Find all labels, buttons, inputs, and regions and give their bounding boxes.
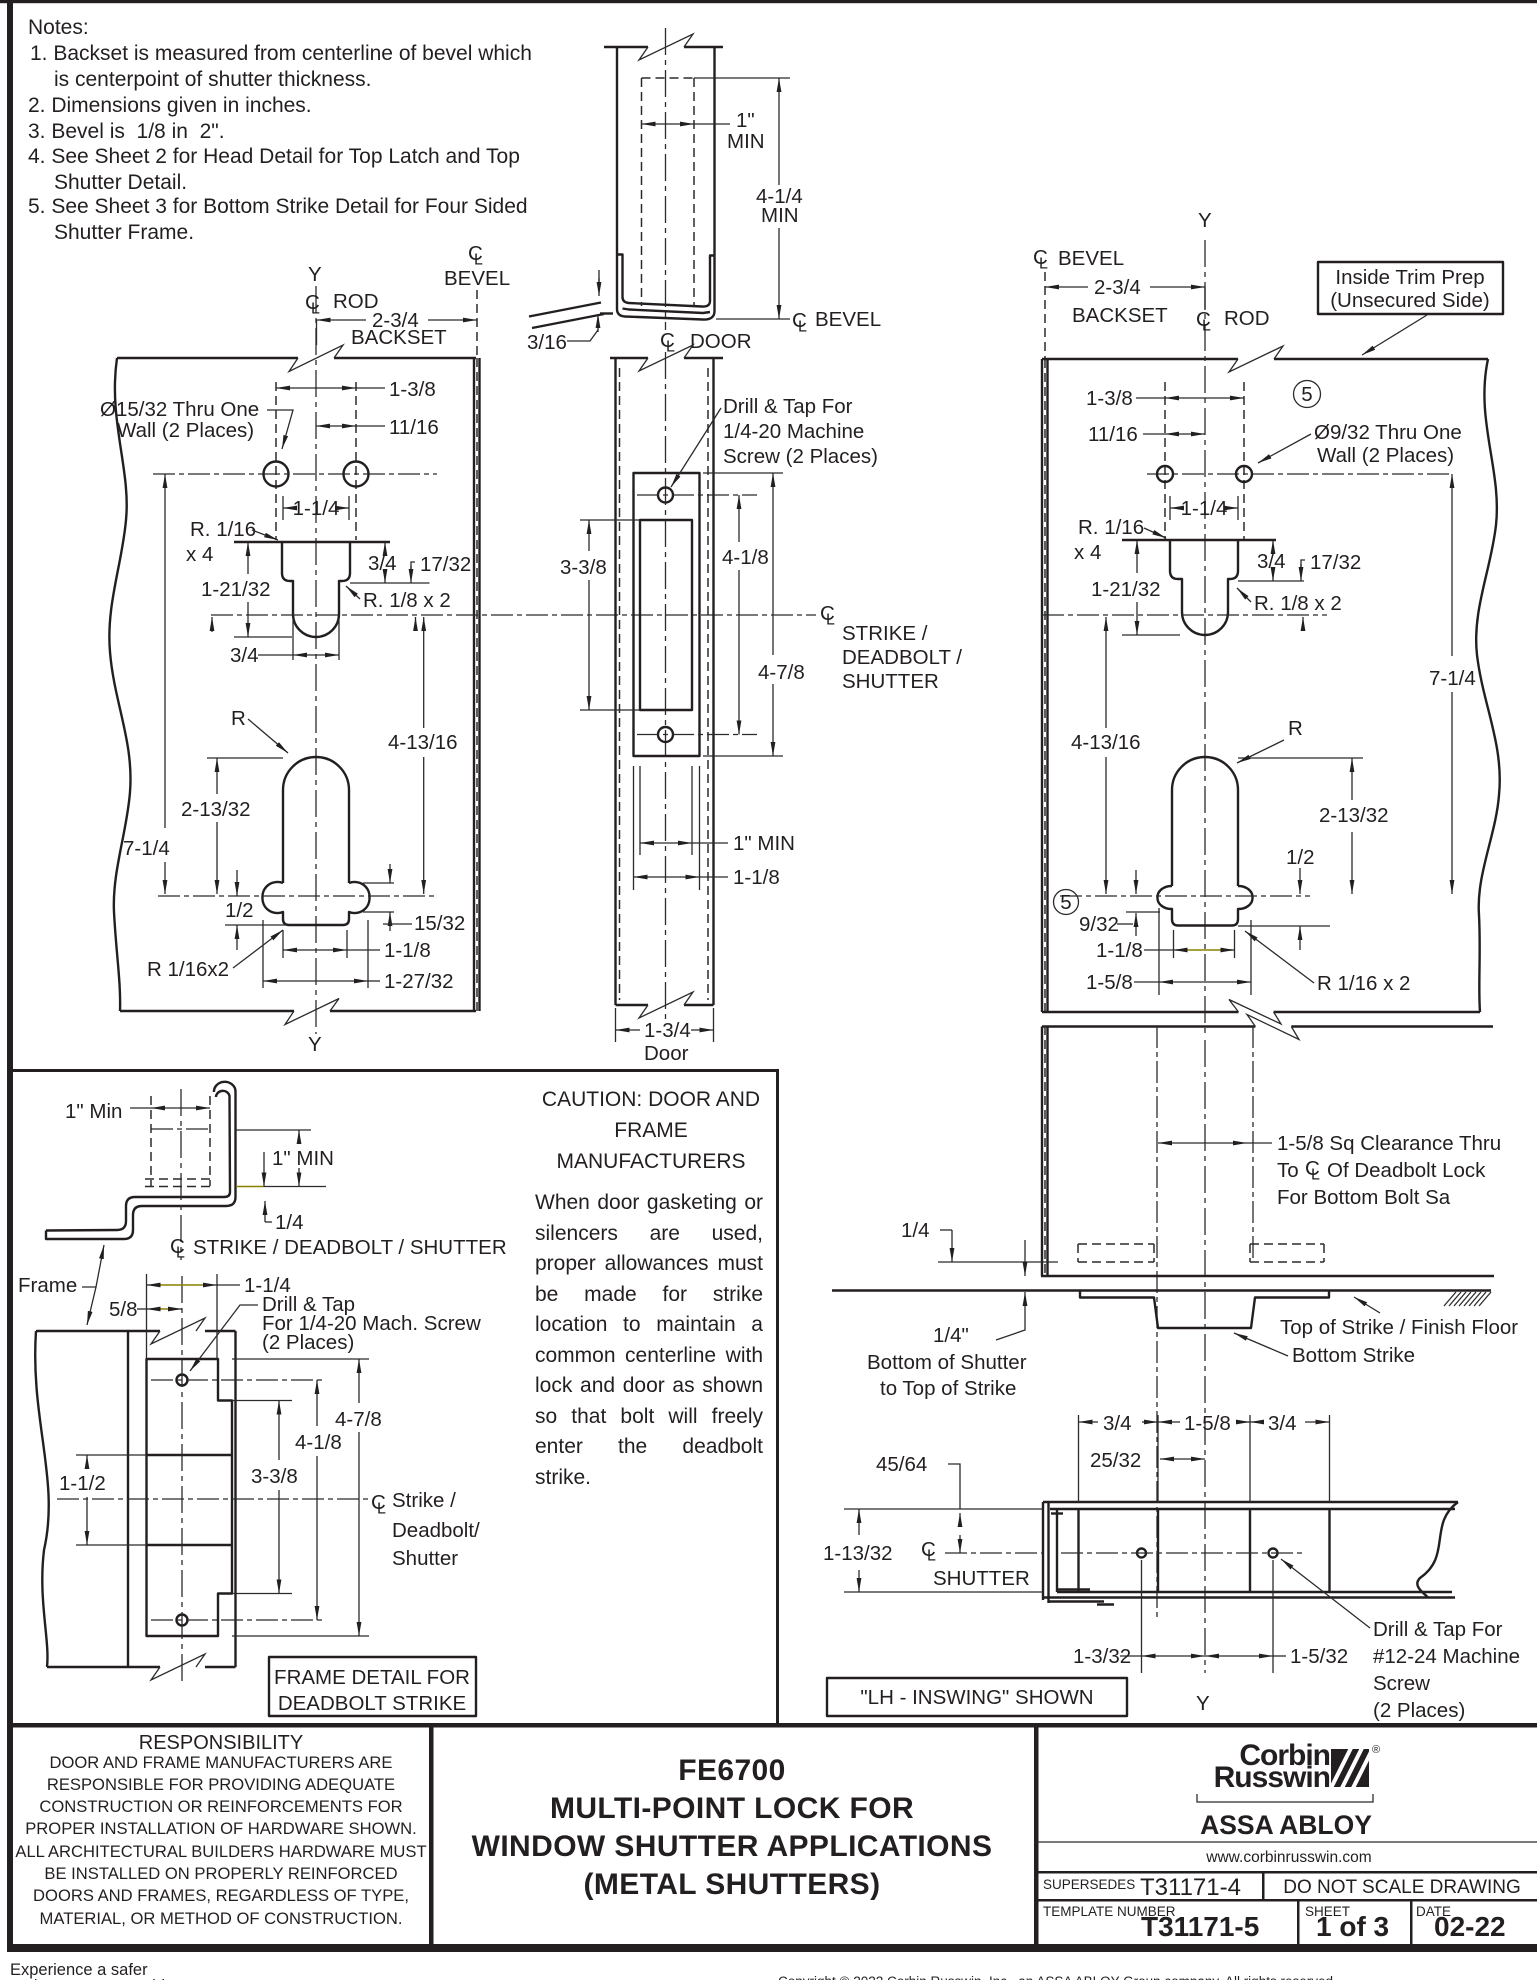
- dim 1-5/8 right: [1158, 908, 1160, 995]
- hole left: [264, 462, 289, 487]
- screw holes rail: [1137, 1549, 1146, 1558]
- right plate left edge double line: [1041, 359, 1043, 1012]
- svg-text:Wall (2 Places): Wall (2 Places): [117, 419, 254, 442]
- dim 1-27/32: [262, 920, 264, 988]
- channel inner walls: [617, 255, 716, 307]
- rail bottom edges: [1057, 1591, 1452, 1593]
- hole centerline horizontal: [153, 473, 437, 475]
- top of strike / finish floor line: [832, 1289, 1491, 1291]
- svg-text:Shutter Detail.: Shutter Detail.: [54, 171, 187, 194]
- dim 3/16: [598, 270, 600, 282]
- door bevel hidden lines: [619, 368, 621, 1000]
- svg-text:3. Bevel is 1/8 in 2".: 3. Bevel is 1/8 in 2".: [28, 120, 225, 143]
- svg-text:1-1/8: 1-1/8: [1096, 939, 1143, 962]
- dim 1/2: [236, 870, 238, 896]
- rail screw centerline: [1061, 1552, 1302, 1554]
- Inside Trim Prep box: [1318, 262, 1503, 314]
- rail left end channel: [1042, 1502, 1044, 1600]
- svg-text:3/4: 3/4: [1268, 1412, 1297, 1435]
- svg-text:SUPERSEDES: SUPERSEDES: [1043, 1877, 1135, 1892]
- svg-text:#12-24 Machine: #12-24 Machine: [1373, 1645, 1520, 1668]
- dim 15/32: [363, 882, 394, 884]
- label CL STRIKE DEADBOLT SHUTTER lower left: [170, 1235, 507, 1262]
- leader from box to plate top: [1362, 315, 1427, 355]
- svg-text:11/16: 11/16: [1088, 423, 1138, 446]
- svg-text:3/4: 3/4: [230, 644, 259, 667]
- svg-text:L: L: [1311, 1167, 1320, 1184]
- extension bottom right y925: [1238, 925, 1330, 927]
- label CL BEVEL right: [1033, 246, 1124, 273]
- svg-text:1-3/32: 1-3/32: [1073, 1645, 1131, 1668]
- svg-text:1-3/4: 1-3/4: [644, 1019, 691, 1042]
- Y / CL ROD centerline: [315, 286, 317, 1034]
- svg-text:MIN: MIN: [761, 204, 799, 227]
- dim 1-3/4 door: [615, 1008, 617, 1042]
- svg-text:CAUTION: DOOR AND: CAUTION: DOOR AND: [542, 1088, 760, 1111]
- screw hole bottom: [658, 727, 673, 742]
- svg-text:Drill & Tap For: Drill & Tap For: [723, 395, 853, 418]
- svg-text:L: L: [311, 301, 320, 318]
- dim 1-5/8 sq clearance: [1158, 1142, 1247, 1144]
- svg-text:ROD: ROD: [1224, 307, 1270, 330]
- bottom strike plate: [1080, 1291, 1329, 1329]
- dim 4-1/8 frame: [316, 1380, 318, 1426]
- svg-text:Door: Door: [644, 1042, 689, 1065]
- extension y583 right side: [1238, 580, 1304, 582]
- dim 1-3/8 right: [1136, 397, 1165, 399]
- extension line y583 right: [350, 582, 430, 584]
- door edge walls: [614, 358, 616, 1005]
- dim 1/4 lower: [1024, 1292, 1026, 1311]
- svg-text:DOOR: DOOR: [690, 330, 752, 353]
- svg-text:1" MIN: 1" MIN: [272, 1147, 334, 1170]
- channel outer walls: [617, 47, 715, 320]
- svg-text:(METAL SHUTTERS): (METAL SHUTTERS): [584, 1868, 881, 1901]
- center line frame detail: [181, 1276, 183, 1686]
- dim 1-1/8 lower: [633, 766, 635, 890]
- dim 2-3/4 BACKSET right: [1045, 286, 1088, 288]
- dim 4-13/16 right: [1105, 617, 1107, 728]
- svg-text:4-13/16: 4-13/16: [388, 731, 458, 754]
- svg-text:Ø15/32 Thru One: Ø15/32 Thru One: [100, 398, 259, 421]
- door centerline upper: [665, 28, 667, 330]
- label CL ROD right: [1196, 307, 1270, 335]
- dim 1/2 right: [1299, 868, 1301, 894]
- dome extension right: [1238, 757, 1363, 759]
- dim 1-1/2: [86, 1455, 88, 1467]
- extension y637 right drawing: [1122, 634, 1180, 636]
- Y / CL ROD centerline right: [1204, 240, 1206, 1034]
- strike centerline horizontal common: [211, 614, 816, 616]
- svg-text:PROPER INSTALLATION OF HARDWAR: PROPER INSTALLATION OF HARDWARE SHOWN.: [25, 1819, 417, 1838]
- svg-text:Russwin: Russwin: [1214, 1761, 1330, 1794]
- CL strike line frame detail: [57, 1498, 371, 1500]
- svg-text:4-13/16: 4-13/16: [1071, 731, 1141, 754]
- left plate bottom edge: [120, 1010, 476, 1012]
- cutout centerlines right: [1164, 382, 1166, 540]
- svg-text:ALL ARCHITECTURAL BUILDERS HAR: ALL ARCHITECTURAL BUILDERS HARDWARE MUST: [15, 1842, 426, 1861]
- svg-text:2-3/4: 2-3/4: [1094, 276, 1141, 299]
- svg-text:RESPONSIBILITY: RESPONSIBILITY: [139, 1732, 304, 1754]
- dim 1-5/8 center: [1158, 1421, 1180, 1423]
- svg-text:BACKSET: BACKSET: [1072, 304, 1168, 327]
- svg-text:17/32: 17/32: [1310, 551, 1361, 574]
- dim 3/4 vertical: [384, 542, 386, 551]
- svg-text:Ø9/32 Thru One: Ø9/32 Thru One: [1314, 421, 1462, 444]
- dim 3-3/8: [580, 519, 640, 521]
- svg-text:R: R: [1288, 717, 1303, 740]
- svg-text:Wall (2 Places): Wall (2 Places): [1317, 444, 1454, 467]
- dim 7-1/4: [164, 474, 166, 828]
- svg-text:Notes:: Notes:: [28, 16, 89, 39]
- dim 11/16: [316, 425, 356, 427]
- svg-text:3/16: 3/16: [527, 331, 567, 354]
- svg-text:2-13/32: 2-13/32: [181, 798, 251, 821]
- svg-text:BACKSET: BACKSET: [351, 326, 447, 349]
- svg-text:R. 1/8 x 2: R. 1/8 x 2: [363, 589, 451, 612]
- dim 3/4 left: [1079, 1421, 1099, 1423]
- left plate right edge (bent flange, double line): [473, 358, 475, 1011]
- break symbol top: [289, 345, 343, 372]
- label CL strike frame detail: [371, 1489, 480, 1570]
- svg-text:To: To: [1277, 1159, 1299, 1182]
- strike plate face: [634, 473, 700, 756]
- dim 1-3/32: [1141, 1560, 1143, 1673]
- dim 4-1/8: [738, 495, 740, 542]
- svg-text:Drill & Tap For: Drill & Tap For: [1373, 1618, 1503, 1641]
- leader to right hole: [1258, 434, 1311, 463]
- small tick bottom left: [600, 312, 613, 314]
- svg-text:Bottom Strike: Bottom Strike: [1292, 1344, 1415, 1367]
- svg-text:1-5/8: 1-5/8: [1184, 1412, 1231, 1435]
- svg-text:1-1/2: 1-1/2: [59, 1472, 106, 1495]
- svg-text:is centerpoint of shutter thic: is centerpoint of shutter thickness.: [54, 68, 372, 91]
- svg-text:1-13/32: 1-13/32: [823, 1542, 893, 1565]
- dim 1-1/8: [282, 930, 284, 958]
- CL BEVEL dashed right: [1044, 272, 1046, 359]
- door top edge with break: [610, 357, 723, 359]
- svg-text:1/4: 1/4: [275, 1211, 304, 1234]
- upper cutout outline right: [1122, 540, 1276, 635]
- leader to left hole: [267, 410, 293, 449]
- svg-text:1-5/8: 1-5/8: [1086, 971, 1133, 994]
- dim 4-13/16: [423, 617, 425, 728]
- bevel slant lines: [529, 303, 604, 329]
- shutter lower section top line with double break: [1042, 1025, 1493, 1027]
- svg-text:"LH - INSWING" SHOWN: "LH - INSWING" SHOWN: [860, 1686, 1093, 1709]
- dim 1 inch MIN lower: [639, 766, 641, 855]
- hidden shutter channel in Z: [151, 1096, 210, 1186]
- svg-text:SHUTTER: SHUTTER: [842, 670, 939, 693]
- svg-text:WINDOW SHUTTER APPLICATIONS: WINDOW SHUTTER APPLICATIONS: [472, 1830, 993, 1863]
- notes: [28, 16, 532, 244]
- guide bottom extension: [938, 1261, 1058, 1263]
- svg-text:Strike /: Strike /: [392, 1489, 456, 1512]
- dim 4-7/8: [703, 472, 783, 474]
- dim 1" MIN top: [642, 123, 695, 125]
- svg-text:R: R: [231, 707, 246, 730]
- svg-text:Deadbolt/: Deadbolt/: [392, 1519, 480, 1542]
- svg-text:1-3/8: 1-3/8: [1086, 387, 1133, 410]
- svg-text:5: 5: [1301, 383, 1312, 406]
- svg-text:BE INSTALLED ON PROPERLY REINF: BE INSTALLED ON PROPERLY REINFORCED: [44, 1864, 397, 1883]
- extension line y637: [234, 636, 292, 638]
- svg-text:SHUTTER: SHUTTER: [933, 1567, 1030, 1590]
- label CL SHUTTER: [921, 1538, 1030, 1590]
- svg-text:Screw (2 Places): Screw (2 Places): [723, 445, 878, 468]
- deadbolt strike plate side view: [147, 1359, 233, 1636]
- svg-text:RESPONSIBLE FOR PROVIDING ADEQ: RESPONSIBLE FOR PROVIDING ADEQUATE: [47, 1775, 395, 1794]
- dim 1-13/32: [844, 1508, 1043, 1510]
- svg-text:1/2: 1/2: [225, 899, 254, 922]
- dim 3/4 slot width: [292, 620, 294, 660]
- svg-text:Shutter Frame.: Shutter Frame.: [54, 221, 194, 244]
- svg-text:(2 Places): (2 Places): [262, 1331, 354, 1354]
- dim 3/4 right: [1250, 1421, 1264, 1423]
- title block table: [1038, 1871, 1537, 1944]
- svg-text:1. Backset is measured from ce: 1. Backset is measured from centerline o…: [30, 42, 532, 65]
- lock block edges: [1077, 1509, 1079, 1592]
- svg-text:ASSA ABLOY: ASSA ABLOY: [1200, 1810, 1372, 1840]
- svg-text:R 1/16x2: R 1/16x2: [147, 958, 229, 981]
- svg-text:BEVEL: BEVEL: [444, 267, 510, 290]
- svg-text:5: 5: [1060, 891, 1071, 914]
- floor hatching: [1444, 1292, 1491, 1306]
- cutout centerlines (vertical dashed): [275, 382, 277, 540]
- responsibility text: [15, 1732, 426, 1928]
- right plate bottom edge with double break: [1042, 1011, 1480, 1013]
- svg-text:4-1/8: 4-1/8: [295, 1431, 342, 1454]
- svg-text:CONSTRUCTION OR REINFORCEMENTS: CONSTRUCTION OR REINFORCEMENTS FOR: [39, 1797, 402, 1816]
- title block top border: [13, 1723, 1537, 1728]
- dim 1-21/32: [247, 542, 249, 574]
- svg-text:Screw: Screw: [1373, 1672, 1430, 1695]
- svg-text:to Top of Strike: to Top of Strike: [880, 1377, 1016, 1400]
- svg-text:(Unsecured Side): (Unsecured Side): [1330, 289, 1490, 312]
- title block divider right: [1034, 1727, 1039, 1944]
- small tick left of CL: [211, 617, 213, 632]
- svg-text:4-7/8: 4-7/8: [758, 661, 805, 684]
- svg-text:1" Min: 1" Min: [65, 1100, 122, 1123]
- svg-text:1": 1": [736, 109, 755, 132]
- svg-text:17/32: 17/32: [420, 553, 471, 576]
- svg-text:1-5/8 Sq Clearance Thru: 1-5/8 Sq Clearance Thru: [1277, 1132, 1501, 1155]
- lower cutout centerline: [158, 895, 438, 897]
- lower cutout keyhole right: [1157, 757, 1252, 926]
- svg-text:FE6700: FE6700: [678, 1754, 785, 1787]
- dim 4-7/8 frame: [232, 1358, 369, 1360]
- dim 11/16 right: [1143, 433, 1165, 435]
- shutter bottom line: [1041, 1275, 1494, 1277]
- 17/32 lower arrow at CL: [415, 617, 417, 631]
- svg-text:T31171-4: T31171-4: [1140, 1874, 1241, 1901]
- svg-text:Y: Y: [1196, 1692, 1210, 1715]
- svg-text:R. 1/16: R. 1/16: [190, 518, 256, 541]
- dome top extension: [207, 757, 283, 759]
- svg-text:4. See Sheet 2 for Head Detail: 4. See Sheet 2 for Head Detail for Top L…: [28, 145, 520, 168]
- dim 1" MIN: [236, 1129, 312, 1131]
- svg-text:02-22: 02-22: [1434, 1911, 1506, 1942]
- label CL ROD: [305, 290, 379, 318]
- dim 2-13/32 right: [1351, 758, 1353, 800]
- svg-text:4-1/8: 4-1/8: [722, 546, 769, 569]
- rail top edges: [1043, 1501, 1458, 1503]
- frame section outline: [35, 1331, 49, 1667]
- svg-text:3-3/8: 3-3/8: [251, 1465, 298, 1488]
- svg-text:7-1/4: 7-1/4: [1429, 667, 1476, 690]
- extension lines above plate: [146, 1274, 148, 1359]
- dim 3-3/8 frame: [232, 1400, 292, 1402]
- svg-text:x 4: x 4: [1074, 541, 1101, 564]
- svg-text:1" MIN: 1" MIN: [733, 832, 795, 855]
- right plate wavy edge: [1476, 359, 1500, 1012]
- svg-text:3/4: 3/4: [1257, 550, 1286, 573]
- svg-text:L: L: [1202, 318, 1211, 335]
- dim 1-1/4: [282, 496, 284, 520]
- svg-text:(2 Places): (2 Places): [1373, 1699, 1465, 1722]
- svg-text:STRIKE / DEADBOLT / SHUTTER: STRIKE / DEADBOLT / SHUTTER: [193, 1236, 507, 1259]
- svg-text:11/16: 11/16: [389, 416, 439, 439]
- hole right small: [1236, 466, 1252, 482]
- svg-text:L: L: [1039, 256, 1048, 273]
- svg-text:L: L: [798, 319, 807, 336]
- lower cutout keyhole outline: [262, 757, 369, 925]
- Z frame profile: [46, 1082, 236, 1239]
- svg-text:1-27/32: 1-27/32: [384, 970, 454, 993]
- dim 9/32: [1126, 911, 1160, 913]
- svg-text:1-1/4: 1-1/4: [293, 497, 340, 520]
- left plate top edge: [117, 357, 476, 359]
- svg-text:45/64: 45/64: [876, 1453, 927, 1476]
- extension bottom y925: [225, 924, 287, 926]
- svg-text:STRIKE /: STRIKE /: [842, 622, 928, 645]
- svg-text:1-21/32: 1-21/32: [1091, 578, 1161, 601]
- detail area box lines: [13, 1069, 779, 1072]
- lower cutout centerline right: [1060, 895, 1310, 897]
- dim 1-1/4 right: [1169, 496, 1171, 520]
- circled note 5 upper: [1294, 381, 1321, 408]
- rail right wavy break: [1417, 1502, 1458, 1598]
- svg-text:Of Deadbolt Lock: Of Deadbolt Lock: [1327, 1159, 1486, 1182]
- hole right: [344, 462, 369, 487]
- svg-text:Frame: Frame: [18, 1274, 77, 1297]
- svg-text:3/4: 3/4: [1103, 1412, 1132, 1435]
- svg-text:MATERIAL, OR METHOD OF CONSTRU: MATERIAL, OR METHOD OF CONSTRUCTION.: [40, 1909, 403, 1928]
- upper cutout outline: [234, 542, 390, 637]
- label CL STRIKE DEADBOLT SHUTTER: [820, 602, 962, 693]
- dim 1-21/32 right: [1136, 540, 1138, 573]
- shutter lower left edge double: [1041, 1027, 1043, 1277]
- strike plate cutout: [640, 520, 692, 710]
- dim 1-1/4 frame: [152, 1284, 208, 1286]
- top dims extensions: [1078, 1415, 1080, 1502]
- svg-text:For Bottom Bolt Sa: For Bottom Bolt Sa: [1277, 1186, 1451, 1209]
- sheet border frame: [0, 0, 1537, 3]
- door centerline lower: [665, 352, 667, 1022]
- svg-text:www.corbinrusswin.com: www.corbinrusswin.com: [1205, 1849, 1371, 1866]
- svg-text:5/8: 5/8: [109, 1298, 138, 1321]
- LH INSWING box: [827, 1678, 1127, 1716]
- svg-text:Bottom of Shutter: Bottom of Shutter: [867, 1351, 1027, 1374]
- svg-text:BEVEL: BEVEL: [1058, 247, 1124, 270]
- svg-text:7-1/4: 7-1/4: [123, 837, 170, 860]
- svg-text:FRAME: FRAME: [614, 1119, 688, 1142]
- svg-text:3-3/8: 3-3/8: [560, 556, 607, 579]
- Corbin Russwin logo: [1036, 1739, 1537, 1866]
- dim 2-13/32: [216, 758, 218, 794]
- drawing title text: [472, 1754, 993, 1901]
- svg-text:L: L: [826, 612, 835, 629]
- svg-text:Copyright © 2022 Corbin Russwi: Copyright © 2022 Corbin Russwin, Inc., a…: [778, 1974, 1337, 1980]
- svg-text:MIN: MIN: [727, 130, 765, 153]
- dim 3/4 right: [1272, 540, 1274, 551]
- shutter channel top edge with break: [604, 46, 723, 48]
- hole left small: [1157, 466, 1173, 482]
- dim 1-3/8: [276, 387, 356, 389]
- dim 5/8: [151, 1308, 172, 1310]
- svg-text:2-13/32: 2-13/32: [1319, 804, 1389, 827]
- svg-text:1/4: 1/4: [901, 1219, 930, 1242]
- svg-text:R 1/16 x 2: R 1/16 x 2: [1317, 972, 1410, 995]
- svg-text:2. Dimensions given in inches.: 2. Dimensions given in inches.: [28, 94, 312, 117]
- circled note 5 lower: [1054, 890, 1079, 915]
- svg-text:®: ®: [1372, 1744, 1380, 1756]
- svg-text:1-5/32: 1-5/32: [1290, 1645, 1348, 1668]
- screw holes frame detail: [177, 1375, 188, 1386]
- break symbol bottom: [285, 999, 339, 1025]
- svg-text:DO NOT SCALE DRAWING: DO NOT SCALE DRAWING: [1283, 1877, 1521, 1898]
- svg-text:5. See Sheet 3 for Bottom Stri: 5. See Sheet 3 for Bottom Strike Detail …: [28, 195, 528, 218]
- strike centerline right: [1042, 614, 1327, 616]
- svg-text:Y: Y: [1198, 209, 1212, 232]
- svg-text:DOORS AND FRAMES, REGARDLESS O: DOORS AND FRAMES, REGARDLESS OF TYPE,: [33, 1886, 409, 1905]
- svg-text:L: L: [474, 252, 483, 269]
- svg-text:R. 1/16: R. 1/16: [1078, 516, 1144, 539]
- svg-text:L: L: [176, 1245, 185, 1262]
- svg-text:T31171-5: T31171-5: [1141, 1911, 1259, 1942]
- CL BEVEL line and label: [716, 318, 790, 320]
- svg-text:1/4": 1/4": [933, 1324, 969, 1347]
- svg-text:3/4: 3/4: [368, 552, 397, 575]
- hidden bolt guides: [1078, 1244, 1154, 1262]
- CL BEVEL dashed line: [476, 290, 478, 358]
- channel inner bottom second line: [623, 309, 711, 314]
- svg-text:DEADBOLT STRIKE: DEADBOLT STRIKE: [278, 1692, 466, 1715]
- right plate top edge with break: [1042, 358, 1488, 360]
- door bottom edge with break: [616, 1004, 714, 1006]
- hole centerline right: [1147, 473, 1452, 475]
- svg-text:9/32: 9/32: [1079, 913, 1119, 936]
- svg-text:1-1/8: 1-1/8: [733, 866, 780, 889]
- left plate wavy break edge: [109, 358, 130, 1011]
- dim 1/4 Z: [264, 1201, 266, 1222]
- svg-text:15/32: 15/32: [414, 912, 465, 935]
- dim 1-5/32: [1272, 1560, 1274, 1673]
- svg-text:MULTI-POINT LOCK FOR: MULTI-POINT LOCK FOR: [550, 1792, 914, 1825]
- screw hole top: [658, 488, 673, 503]
- svg-text:x 4: x 4: [186, 543, 213, 566]
- vertical centerlines lower: [1156, 1026, 1158, 1617]
- svg-text:Y: Y: [308, 263, 322, 286]
- dim 7-1/4 right: [1451, 474, 1453, 656]
- svg-text:Inside Trim Prep: Inside Trim Prep: [1335, 266, 1484, 289]
- svg-text:Y: Y: [308, 1033, 322, 1056]
- svg-text:MANUFACTURERS: MANUFACTURERS: [556, 1150, 745, 1173]
- svg-text:R. 1/8 x 2: R. 1/8 x 2: [1254, 592, 1342, 615]
- dim 2-3/4 BACKSET: [316, 320, 318, 345]
- svg-text:DEADBOLT /: DEADBOLT /: [842, 646, 962, 669]
- svg-text:Shutter: Shutter: [392, 1547, 458, 1570]
